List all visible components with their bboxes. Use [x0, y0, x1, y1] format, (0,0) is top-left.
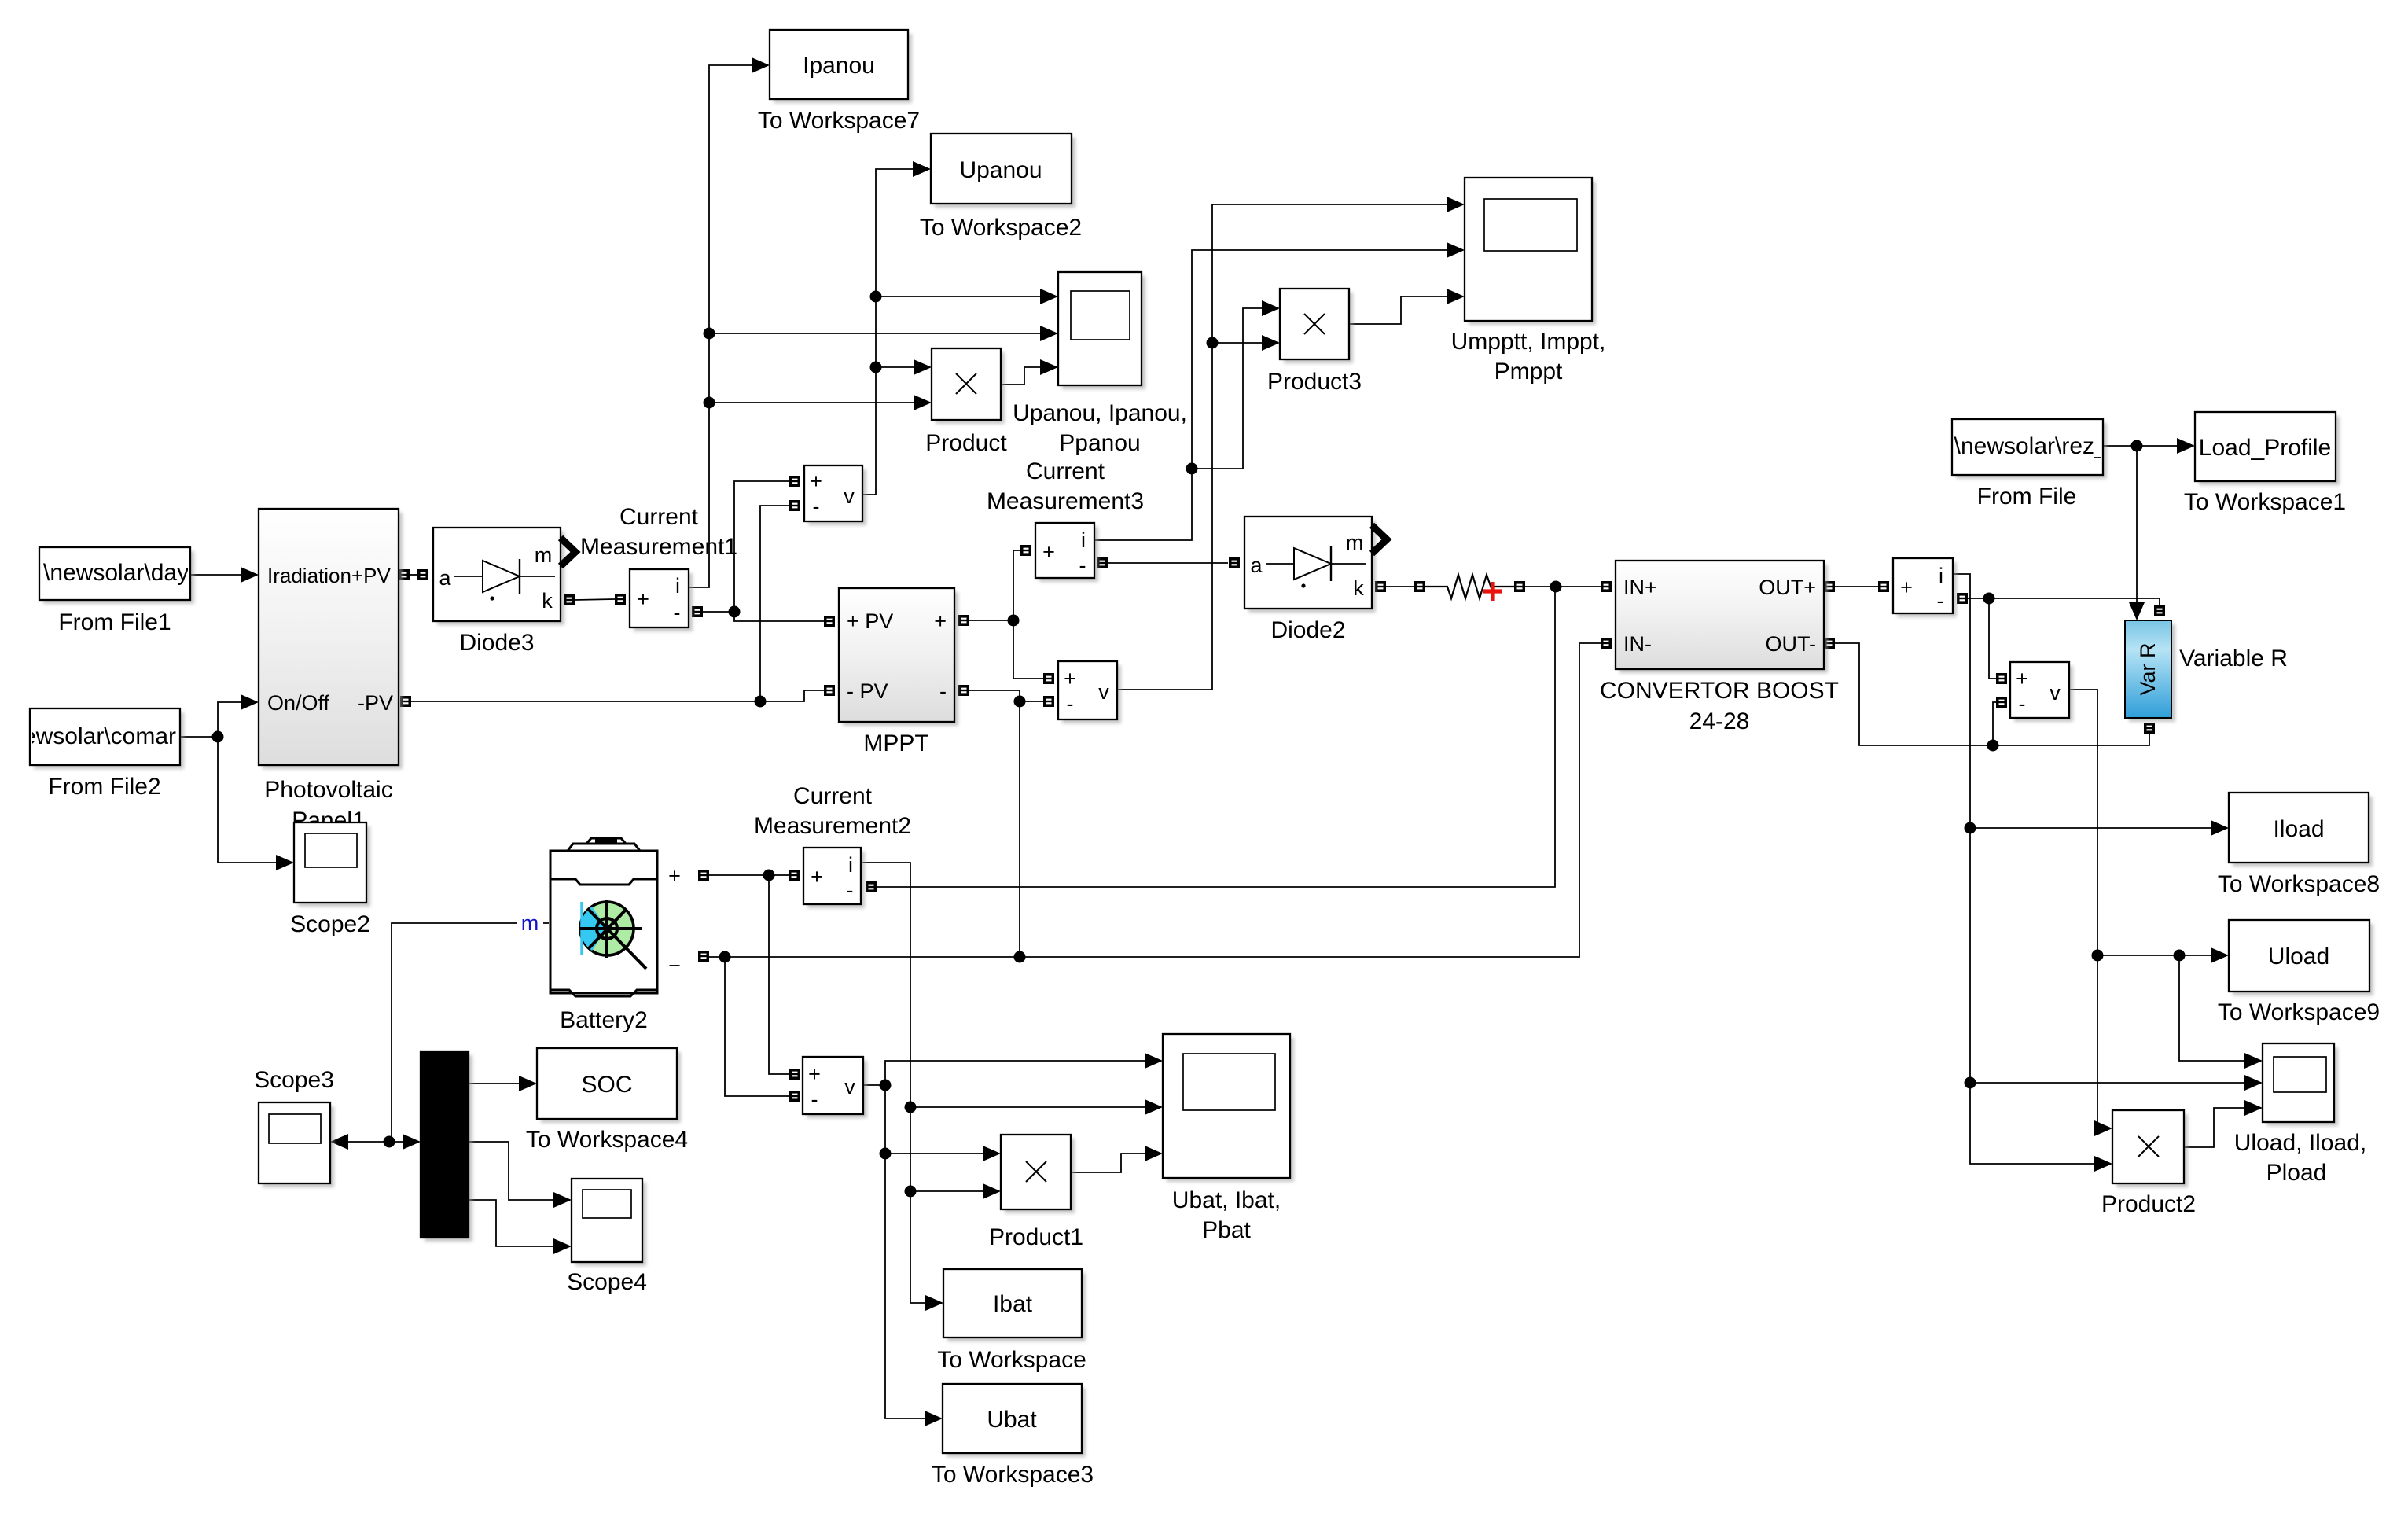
svg-text:Uload: Uload [2268, 944, 2329, 970]
svg-text:Current: Current [619, 504, 699, 530]
svg-text:−: − [668, 954, 681, 977]
svg-text:Upanou: Upanou [959, 157, 1042, 183]
wire From File2 output to On/Off input and Scope2, junction at node [180, 694, 294, 870]
svg-text:i: i [1081, 528, 1086, 552]
scope Umpptt Imppt Pmppt [1465, 178, 1596, 325]
wire Product2 output to Uload scope input 3 [2184, 1100, 2263, 1147]
svg-text:v: v [1098, 680, 1109, 704]
svg-text:m: m [521, 911, 539, 935]
svg-text:- PV: - PV [847, 679, 888, 703]
block Current Measurement3 [1035, 523, 1098, 582]
wire CONVERTOR BOOST OUT- to Variable R bottom and Voltage Measurement right - [1824, 638, 2155, 752]
block Diode2 [1244, 517, 1387, 613]
wire Current Measurement1 i output to Ipanou, scope input 2 and Product input 2 [689, 57, 1058, 587]
block Current Measurement right [1893, 558, 1957, 617]
svg-text:k: k [1353, 576, 1364, 600]
svg-text:Diode2: Diode2 [1270, 617, 1345, 643]
svg-text:-: - [2019, 692, 2026, 716]
wire battery negative bus to CONVERTOR BOOST IN- [698, 638, 1612, 963]
wire Diode3 k to Current Measurement1 + [575, 594, 626, 605]
block Variable R Var R [2125, 620, 2175, 722]
svg-text:IN+: IN+ [1623, 576, 1657, 599]
label battery - terminal [668, 954, 681, 977]
svg-text:Diode3: Diode3 [459, 630, 534, 656]
svg-text:v: v [844, 484, 855, 508]
svg-text:+: + [1042, 540, 1055, 564]
block Voltage Measurement2 [1058, 661, 1121, 723]
label Diode2 [1270, 617, 1345, 643]
svg-text:Product: Product [925, 430, 1007, 456]
svg-text:-: - [1937, 589, 1944, 613]
scope Scope2 [294, 822, 370, 907]
label To Workspace [937, 1347, 1086, 1373]
block To Workspace4 SOC [537, 1048, 681, 1123]
block Product3 multiplier [1280, 289, 1353, 363]
label To Workspace3 [932, 1462, 1094, 1488]
label Scope3 [254, 1067, 334, 1093]
label of scope Uload Iload Pload [2234, 1130, 2366, 1186]
svg-text:To Workspace9: To Workspace9 [2218, 999, 2380, 1025]
wire resistor to CONVERTOR BOOST IN+ with junction from battery branch [1514, 581, 1612, 593]
svg-text:To Workspace1: To Workspace1 [2184, 489, 2346, 515]
svg-text:a: a [1250, 554, 1263, 577]
svg-text:Pmppt: Pmppt [1494, 359, 1563, 385]
wire From File to Load_Profile and down arrow to Variable R [2103, 438, 2195, 620]
wire Current Measurement right - terminal to Variable R top and Voltage Measurement right + [1957, 593, 2165, 685]
wire Photovoltaic -PV to MPPT -PV net [400, 685, 835, 708]
svg-text:-: - [847, 878, 854, 902]
svg-text:CONVERTOR BOOST: CONVERTOR BOOST [1600, 678, 1839, 704]
svg-text:i: i [1939, 564, 1943, 587]
svg-text:i: i [848, 853, 853, 877]
svg-text:From File2: From File2 [48, 774, 160, 800]
wire Voltage Measurement2 v output to Umpptt scope input 1 and Product3 input 2 [1117, 197, 1465, 690]
svg-text:a: a [439, 566, 451, 590]
block To Workspace1 Load_Profile [2195, 412, 2340, 485]
svg-text:Pbat: Pbat [1202, 1217, 1251, 1243]
svg-text:On/Off: On/Off [267, 691, 330, 715]
scope Ubat Ibat Pbat [1163, 1034, 1294, 1182]
svg-text:+: + [811, 865, 823, 889]
label MPPT [863, 730, 928, 756]
svg-text:ewsolar\comar: ewsolar\comar [23, 723, 176, 749]
block Product multiplier [932, 348, 1005, 424]
svg-text:+: + [810, 469, 822, 493]
label Product [925, 430, 1007, 456]
svg-text:k: k [542, 589, 553, 613]
label Product2 [2101, 1191, 2196, 1217]
wire Current Measurement3 i output to Umpptt scope input 2 and Product3 input 1 [1094, 242, 1465, 540]
label To Workspace8 [2218, 871, 2380, 897]
block MPPT [839, 588, 958, 726]
label of scope Umpptt Imppt Pmppt [1451, 329, 1606, 385]
label Battery2 [560, 1007, 648, 1033]
label From File2 [48, 774, 160, 800]
svg-text:Product1: Product1 [989, 1224, 1083, 1250]
scope Scope3 flipped [259, 1102, 334, 1187]
label From File [1977, 484, 2077, 510]
block To Workspace7 Ipanou [770, 30, 912, 103]
svg-text:To Workspace8: To Workspace8 [2218, 871, 2380, 897]
svg-text:Ubat: Ubat [987, 1407, 1037, 1433]
block Voltage Measurement3 [803, 1057, 867, 1118]
label Variable R [2179, 646, 2288, 672]
svg-text:Scope2: Scope2 [290, 911, 370, 937]
svg-text:To Workspace4: To Workspace4 [526, 1127, 688, 1153]
svg-text:Load_Profile: Load_Profile [2199, 435, 2331, 461]
block Voltage Measurement right [2010, 662, 2073, 722]
wire Product3 output to Umpptt scope input 3 [1349, 289, 1465, 324]
label Scope2 [290, 911, 370, 937]
svg-text:v: v [844, 1075, 855, 1098]
wire Mux output 1 to SOC [469, 1076, 537, 1091]
label Product1 [989, 1224, 1083, 1250]
svg-text:-: - [1079, 554, 1086, 577]
wire CONVERTOR BOOST OUT+ to Current Measurement right + [1824, 581, 1889, 592]
svg-text:+: + [637, 587, 649, 611]
svg-text:+: + [934, 609, 947, 633]
svg-text:-: - [939, 679, 947, 703]
svg-text:+ PV: + PV [847, 609, 893, 633]
svg-text:To Workspace2: To Workspace2 [920, 215, 1082, 241]
svg-text:To Workspace7: To Workspace7 [758, 108, 920, 134]
svg-text:+: + [2016, 667, 2028, 690]
label of scope Upanou Ipanou Ppanou [1013, 400, 1187, 456]
svg-text:SOC: SOC [581, 1072, 632, 1098]
wire Mux output 2 to Scope4 input 1 [469, 1142, 572, 1208]
svg-text:Upanou, Ipanou,: Upanou, Ipanou, [1013, 400, 1187, 426]
block To Workspace8 Iload [2229, 793, 2373, 867]
label Current Measurement2 [754, 783, 911, 839]
svg-text:m: m [535, 543, 553, 567]
svg-text:+: + [668, 864, 681, 888]
svg-text:Var R: Var R [2136, 642, 2160, 695]
wire From File1 output to Photovoltaic Iradiation input [190, 567, 259, 583]
block From File1 [39, 547, 210, 604]
svg-text:-: - [813, 495, 820, 518]
svg-text:Product2: Product2 [2101, 1191, 2196, 1217]
wire Diode2 k to series resistor [1375, 581, 1425, 592]
svg-text:OUT+: OUT+ [1759, 576, 1816, 599]
wire MPPT + output to Current Measurement3 + and Voltage Measurement2 + [958, 545, 1054, 684]
wire Photovoltaic +PV to Diode3 a [399, 569, 428, 580]
label Diode3 [459, 630, 534, 656]
wire Voltage Measurement3 v output to Ubat scope input 1, Product1 input 1 and Ubat [863, 1053, 1163, 1426]
svg-text:24-28: 24-28 [1689, 708, 1750, 734]
svg-text:t\newsolar\rez_: t\newsolar\rez_ [1947, 433, 2108, 459]
svg-text:m: m [1346, 531, 1364, 554]
svg-text:i: i [675, 574, 680, 598]
block To Workspace9 Uload [2229, 920, 2373, 995]
svg-text:To Workspace3: To Workspace3 [932, 1462, 1094, 1488]
block Photovoltaic Panel1 [259, 509, 403, 769]
scope Upanou Ipanou Ppanou [1058, 272, 1145, 389]
svg-text:Umpptt, Imppt,: Umpptt, Imppt, [1451, 329, 1606, 355]
wire Voltage Measurement1 v output to Upanou, scope input 1 and Product input 1 [862, 161, 1058, 495]
svg-text:Variable R: Variable R [2179, 646, 2288, 672]
wire Current Measurement1 - terminal to Voltage Measurement1 + and MPPT +PV [692, 476, 835, 627]
label m of battery output [517, 911, 543, 935]
wire battery negative branch to Voltage Measurement3 - [725, 957, 800, 1102]
wire Current Measurement2 i output to Ibat, Ubat scope input 2 and Product1 input 2 [861, 863, 1163, 1311]
svg-text:Ibat: Ibat [993, 1291, 1033, 1317]
label To Workspace7 [758, 108, 920, 134]
wire Current Measurement3 - terminal to Diode2 a [1097, 557, 1240, 568]
block From File2 [23, 708, 184, 769]
wire Mux output 3 to Scope4 input 2 [469, 1200, 572, 1254]
svg-text:Current: Current [1026, 458, 1105, 484]
resistor R series element [1425, 575, 1514, 598]
label To Workspace1 [2184, 489, 2346, 515]
svg-text:From File1: From File1 [58, 609, 171, 635]
label To Workspace2 [920, 215, 1082, 241]
block Current Measurement2 [803, 848, 865, 908]
svg-text:Scope4: Scope4 [567, 1269, 647, 1295]
wire Voltage Measurement1 - terminal down to -PV net [760, 500, 800, 701]
label Scope4 [567, 1269, 647, 1295]
svg-text:v: v [2050, 681, 2061, 705]
label From File1 [58, 609, 171, 635]
mux Mux selector [421, 1051, 472, 1242]
block Voltage Measurement1 [804, 465, 866, 525]
svg-text:-: - [811, 1087, 818, 1111]
scope Scope4 [572, 1179, 646, 1266]
label battery + terminal [668, 864, 681, 888]
svg-text:Scope3: Scope3 [254, 1067, 334, 1093]
svg-text:Iradiation+PV: Iradiation+PV [267, 564, 391, 587]
scope Uload Iload Pload [2263, 1043, 2338, 1126]
label To Workspace4 [526, 1127, 688, 1153]
block To Workspace3 Ubat [943, 1384, 1086, 1457]
svg-text:+: + [1900, 576, 1913, 599]
block To Workspace Ibat [943, 1269, 1086, 1341]
block CONVERTOR BOOST 24-28 [1616, 561, 1828, 673]
wire Battery2 m output to Scope3 and Mux [330, 923, 549, 1150]
wire Voltage Measurement right v output to Uload, scope input 1 and Product2 input 1 [2069, 690, 2263, 1136]
svg-text:Measurement3: Measurement3 [987, 488, 1144, 514]
svg-text:MPPT: MPPT [863, 730, 928, 756]
svg-text:Product3: Product3 [1267, 369, 1362, 395]
wire Current Measurement2 - terminal to IN+ node [866, 587, 1555, 892]
wire MPPT - output to Voltage Measurement2 - and down to negative bus [958, 685, 1054, 957]
svg-text:-PV: -PV [358, 691, 393, 715]
svg-text:Measurement1: Measurement1 [580, 534, 737, 560]
svg-text:Uload, Iload,: Uload, Iload, [2234, 1130, 2366, 1156]
block Product2 multiplier [2112, 1110, 2188, 1187]
svg-text:Ppanou: Ppanou [1059, 430, 1140, 456]
wire Product1 output to Ubat scope input 3 [1071, 1146, 1163, 1172]
block Battery2 [550, 838, 657, 996]
svg-text:Pload: Pload [2266, 1160, 2327, 1186]
label Current Measurement1 [580, 504, 737, 560]
block To Workspace2 Upanou [931, 134, 1075, 208]
port square of Diode3 k [564, 594, 575, 605]
svg-text:Ipanou: Ipanou [803, 53, 875, 79]
svg-text:Ubat, Ibat,: Ubat, Ibat, [1172, 1187, 1281, 1213]
svg-text:Iload: Iload [2273, 816, 2324, 842]
label of scope Ubat Ibat Pbat [1172, 1187, 1281, 1243]
label CONVERTOR BOOST 24-28 [1600, 678, 1839, 734]
wire Battery2 + to Current Measurement2 + and Voltage Measurement3 + [698, 870, 800, 1080]
block Product1 multiplier [1001, 1135, 1075, 1213]
svg-text:To Workspace: To Workspace [937, 1347, 1086, 1373]
svg-text:From File: From File [1977, 484, 2077, 510]
svg-text:Battery2: Battery2 [560, 1007, 648, 1033]
svg-text:IN-: IN- [1623, 632, 1652, 656]
svg-text:OUT-: OUT- [1766, 632, 1817, 656]
block From File rez [1947, 419, 2108, 479]
label Photovoltaic Panel1 [264, 777, 392, 833]
svg-text:-: - [674, 601, 681, 624]
block Current Measurement1 [630, 569, 693, 631]
label Product3 [1267, 369, 1362, 395]
svg-text:\newsolar\dayra: \newsolar\dayra [43, 560, 210, 586]
label To Workspace9 [2218, 999, 2380, 1025]
svg-text:Photovoltaic: Photovoltaic [264, 777, 392, 803]
wire Product output to scope input 3 [1001, 359, 1058, 385]
label Current Measurement3 [987, 458, 1144, 514]
block Diode3 [433, 528, 575, 625]
svg-text:Measurement2: Measurement2 [754, 813, 911, 839]
wire Current Measurement right i output to Iload, Uload scope input 2 and Product2 input 2 [1953, 574, 2263, 1172]
svg-text:+: + [1064, 667, 1076, 690]
svg-text:-: - [1067, 692, 1074, 716]
label red plus of resistor [1483, 582, 1502, 601]
svg-text:+: + [808, 1062, 821, 1086]
svg-text:Current: Current [793, 783, 873, 809]
